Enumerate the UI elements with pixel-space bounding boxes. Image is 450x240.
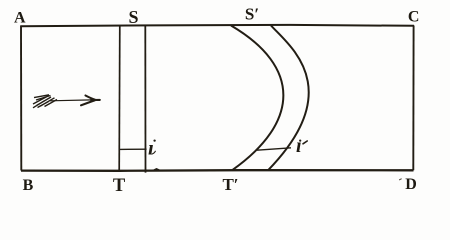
dot of i' (299, 140, 301, 142)
arrow shaft (50, 99, 92, 102)
wire: crossbar i' between curves (257, 148, 291, 150)
svg-text:S′: S′ (245, 5, 259, 24)
svg-text:T: T (113, 176, 126, 196)
wire: right edge C to D (412, 26, 414, 171)
wire: curved wavefront S'-T' left curve (231, 26, 283, 171)
svg-text:T′: T′ (222, 175, 238, 194)
svg-text:ı: ı (296, 135, 302, 157)
wire: bottom edge B to D (21, 169, 414, 172)
dot of i (153, 139, 155, 141)
arrow fletching (33, 95, 57, 108)
svg-text:C: C (408, 9, 420, 26)
wire: straight wavefront line S-T right (144, 26, 146, 173)
wire: top edge A to C (21, 25, 415, 26)
wire: left edge A to B (20, 26, 22, 171)
arrowhead (81, 96, 100, 106)
svg-text:B: B (23, 177, 34, 194)
wire: curved wavefront S'-T' right curve (268, 26, 309, 171)
prime tick of i' (303, 141, 307, 144)
svg-text:S: S (128, 7, 138, 27)
speck left of D (400, 178, 402, 181)
svg-text:D: D (405, 176, 417, 193)
svg-text:ı: ı (148, 136, 154, 160)
wire: crossbar i between straight lines (119, 148, 147, 150)
bump on bottom edge near T (153, 169, 160, 171)
tail of i (152, 151, 155, 154)
wire: straight wavefront line S-T left (118, 26, 121, 171)
svg-text:A: A (14, 10, 26, 27)
